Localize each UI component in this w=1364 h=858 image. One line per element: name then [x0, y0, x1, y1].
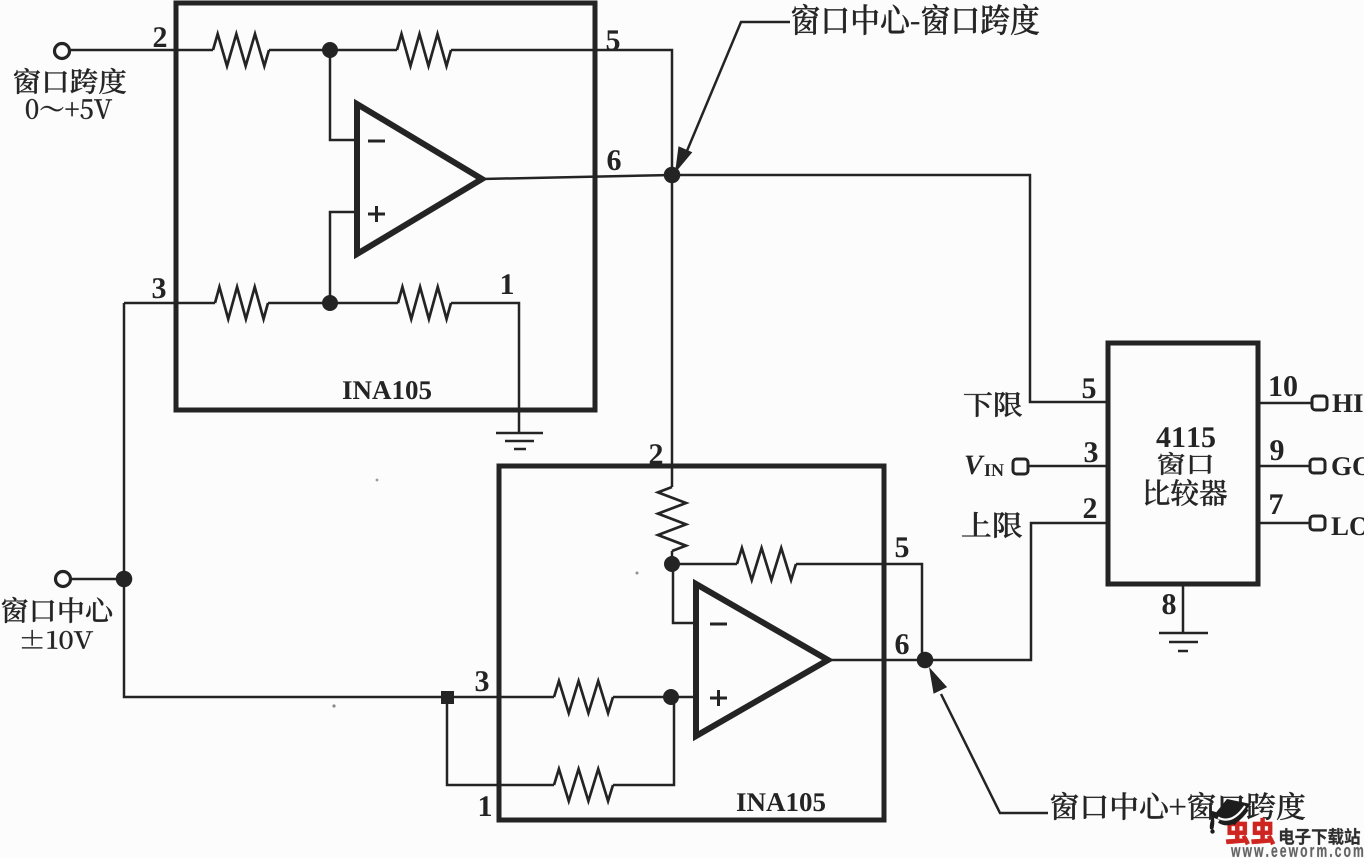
wire U1 output pin 6 [482, 175, 672, 179]
wire R6 pin 5 out (U2) [796, 564, 922, 660]
pin label 1 (U2) [480, 796, 491, 816]
wire VIN to pin 3 [1028, 465, 1108, 468]
pin label 3 (U3) [1085, 442, 1098, 462]
node junction F (square, pin3 tap) [441, 691, 454, 704]
terminal HI [1312, 396, 1327, 410]
watermark www.eeworm.com [1231, 847, 1363, 857]
wire pin 8 to ground [1182, 584, 1185, 633]
pin label 2 (U1) [154, 27, 166, 47]
IC label 4115 (U3) [1156, 427, 1214, 447]
node junction G (R7/R8/non-inverting U2) [663, 689, 679, 705]
wire left vertical bus [124, 303, 441, 697]
plus sign U1 [368, 206, 385, 222]
IC box U1 INA105 [176, 3, 595, 410]
resistor R1 [213, 34, 269, 66]
wire pin 1 feedback loop [447, 697, 674, 785]
minus sign U1 [368, 140, 385, 143]
wire pin 10 to HI terminal [1258, 402, 1312, 405]
IC box U2 INA105 [499, 466, 884, 820]
resistor R7 [554, 681, 613, 713]
node junction B (R3/R4/non-inverting) [322, 295, 338, 311]
wire node E to R6 [672, 563, 737, 566]
label HI [1332, 394, 1362, 412]
label 窗口跨度 (input span) [14, 68, 126, 94]
wire pin3 row into U2 [447, 696, 554, 699]
wire R7 to non-inverting U2 [613, 696, 696, 699]
label ±10V [22, 630, 93, 649]
watermark 电子下载站 [1280, 828, 1360, 845]
label 下限 (lower limit) [964, 392, 1022, 417]
pin label 6 (U1) [608, 150, 621, 170]
node junction H (U2 out) [917, 652, 934, 669]
pin label 5 (U1) [607, 30, 620, 50]
terminal input 窗口中心 [56, 572, 71, 587]
wire output node to 4115 pin 5 (下限) [672, 175, 1108, 402]
arrowhead to node C [675, 146, 692, 173]
terminal input 窗口跨度 [55, 44, 70, 59]
watermark 虫虫 (red) [1226, 818, 1275, 845]
pin label 6 (U2) [896, 634, 909, 654]
node junction A (R1/R2/inverting) [322, 42, 338, 58]
label 窗口中心 (input center) [2, 597, 112, 623]
IC label 窗口 (U3) [1158, 452, 1212, 475]
IC box U3 4115 窗口比较器 [1108, 343, 1258, 584]
wire U2 output pin 6 [828, 659, 925, 662]
wire terminal2 to node D [71, 578, 124, 581]
wire pin 1 to ground [451, 303, 519, 433]
minus sign U2 [710, 623, 727, 626]
pin label 9 (U3) [1270, 440, 1283, 460]
pin label 8 (U3) [1162, 594, 1175, 614]
label VIN italic V [966, 456, 985, 475]
IC label 比较器 (U3) [1145, 479, 1227, 506]
watermark graduation cap [1209, 799, 1251, 834]
pin label 10 (U3) [1270, 376, 1296, 396]
wire pin 7 to LO terminal [1258, 522, 1310, 525]
resistor R3 [215, 287, 268, 319]
pin label 2 (U2) [650, 444, 662, 464]
wire node A to inverting input [330, 50, 357, 140]
pin label 3 (U1) [153, 278, 166, 298]
label VIN subscript IN [985, 464, 1004, 476]
wire node C down to R5 (pin2 of U2) [671, 175, 674, 487]
terminal VIN [1013, 459, 1028, 474]
wire terminal to pin 2 [70, 49, 213, 52]
arrowhead to node H [929, 667, 947, 694]
wire pin 5 out to corner [451, 50, 672, 168]
ground symbol (U1 pin1) [496, 433, 543, 449]
label 上限 (upper limit) [962, 512, 1022, 538]
wire node B to non-inverting input [330, 212, 357, 303]
wire R3 to R4 [268, 302, 398, 305]
node junction D (窗口中心) [116, 571, 133, 588]
resistor R5 (vertical) [658, 487, 686, 551]
IC name INA105 (U2) [737, 793, 825, 811]
label GO [1332, 457, 1364, 475]
label 0～+5V [26, 99, 112, 119]
resistor R6 [737, 548, 796, 580]
wire pin 9 to GO terminal [1258, 465, 1310, 468]
node junction E (R5/R6/inverting U2) [664, 556, 680, 572]
ground symbol (U3 pin 8) [1159, 633, 1208, 651]
terminal LO [1310, 516, 1325, 530]
pin label 7 (U3) [1270, 494, 1283, 514]
plus sign U2 [710, 690, 727, 706]
label LO [1331, 517, 1364, 535]
pin label 1 (U1) [502, 274, 513, 294]
node junction C (U1 out / pin5 / to U2) [664, 167, 681, 184]
op-amp U1 triangle [357, 104, 482, 254]
leader line 窗口中心+窗口跨度 [941, 694, 1048, 813]
resistor R2 [397, 34, 451, 66]
IC name INA105 (U1) [343, 381, 431, 399]
pin label 3 (U2) [476, 671, 489, 691]
wire R5 to node E [671, 551, 674, 564]
wire U2 out to 4115 pin 2 (上限) [925, 523, 1108, 660]
resistor R8 [554, 769, 613, 801]
annotation 窗口中心-窗口跨度 [792, 4, 1039, 35]
resistor R4 [398, 287, 451, 319]
terminal GO [1310, 459, 1325, 473]
scan specks [332, 704, 335, 707]
pin label 5 (U3) [1083, 378, 1096, 398]
wire pin 3 row [124, 302, 215, 305]
wire R1 to R2 [269, 49, 397, 52]
pin label 5 (U2) [896, 537, 909, 557]
annotation 窗口中心+窗口跨度 [1051, 792, 1305, 820]
pin label 2 (U3) [1084, 498, 1096, 518]
op-amp U2 triangle [696, 584, 828, 736]
wire node E to inverting input U2 [673, 564, 696, 623]
leader line 窗口中心-窗口跨度 [684, 22, 790, 158]
